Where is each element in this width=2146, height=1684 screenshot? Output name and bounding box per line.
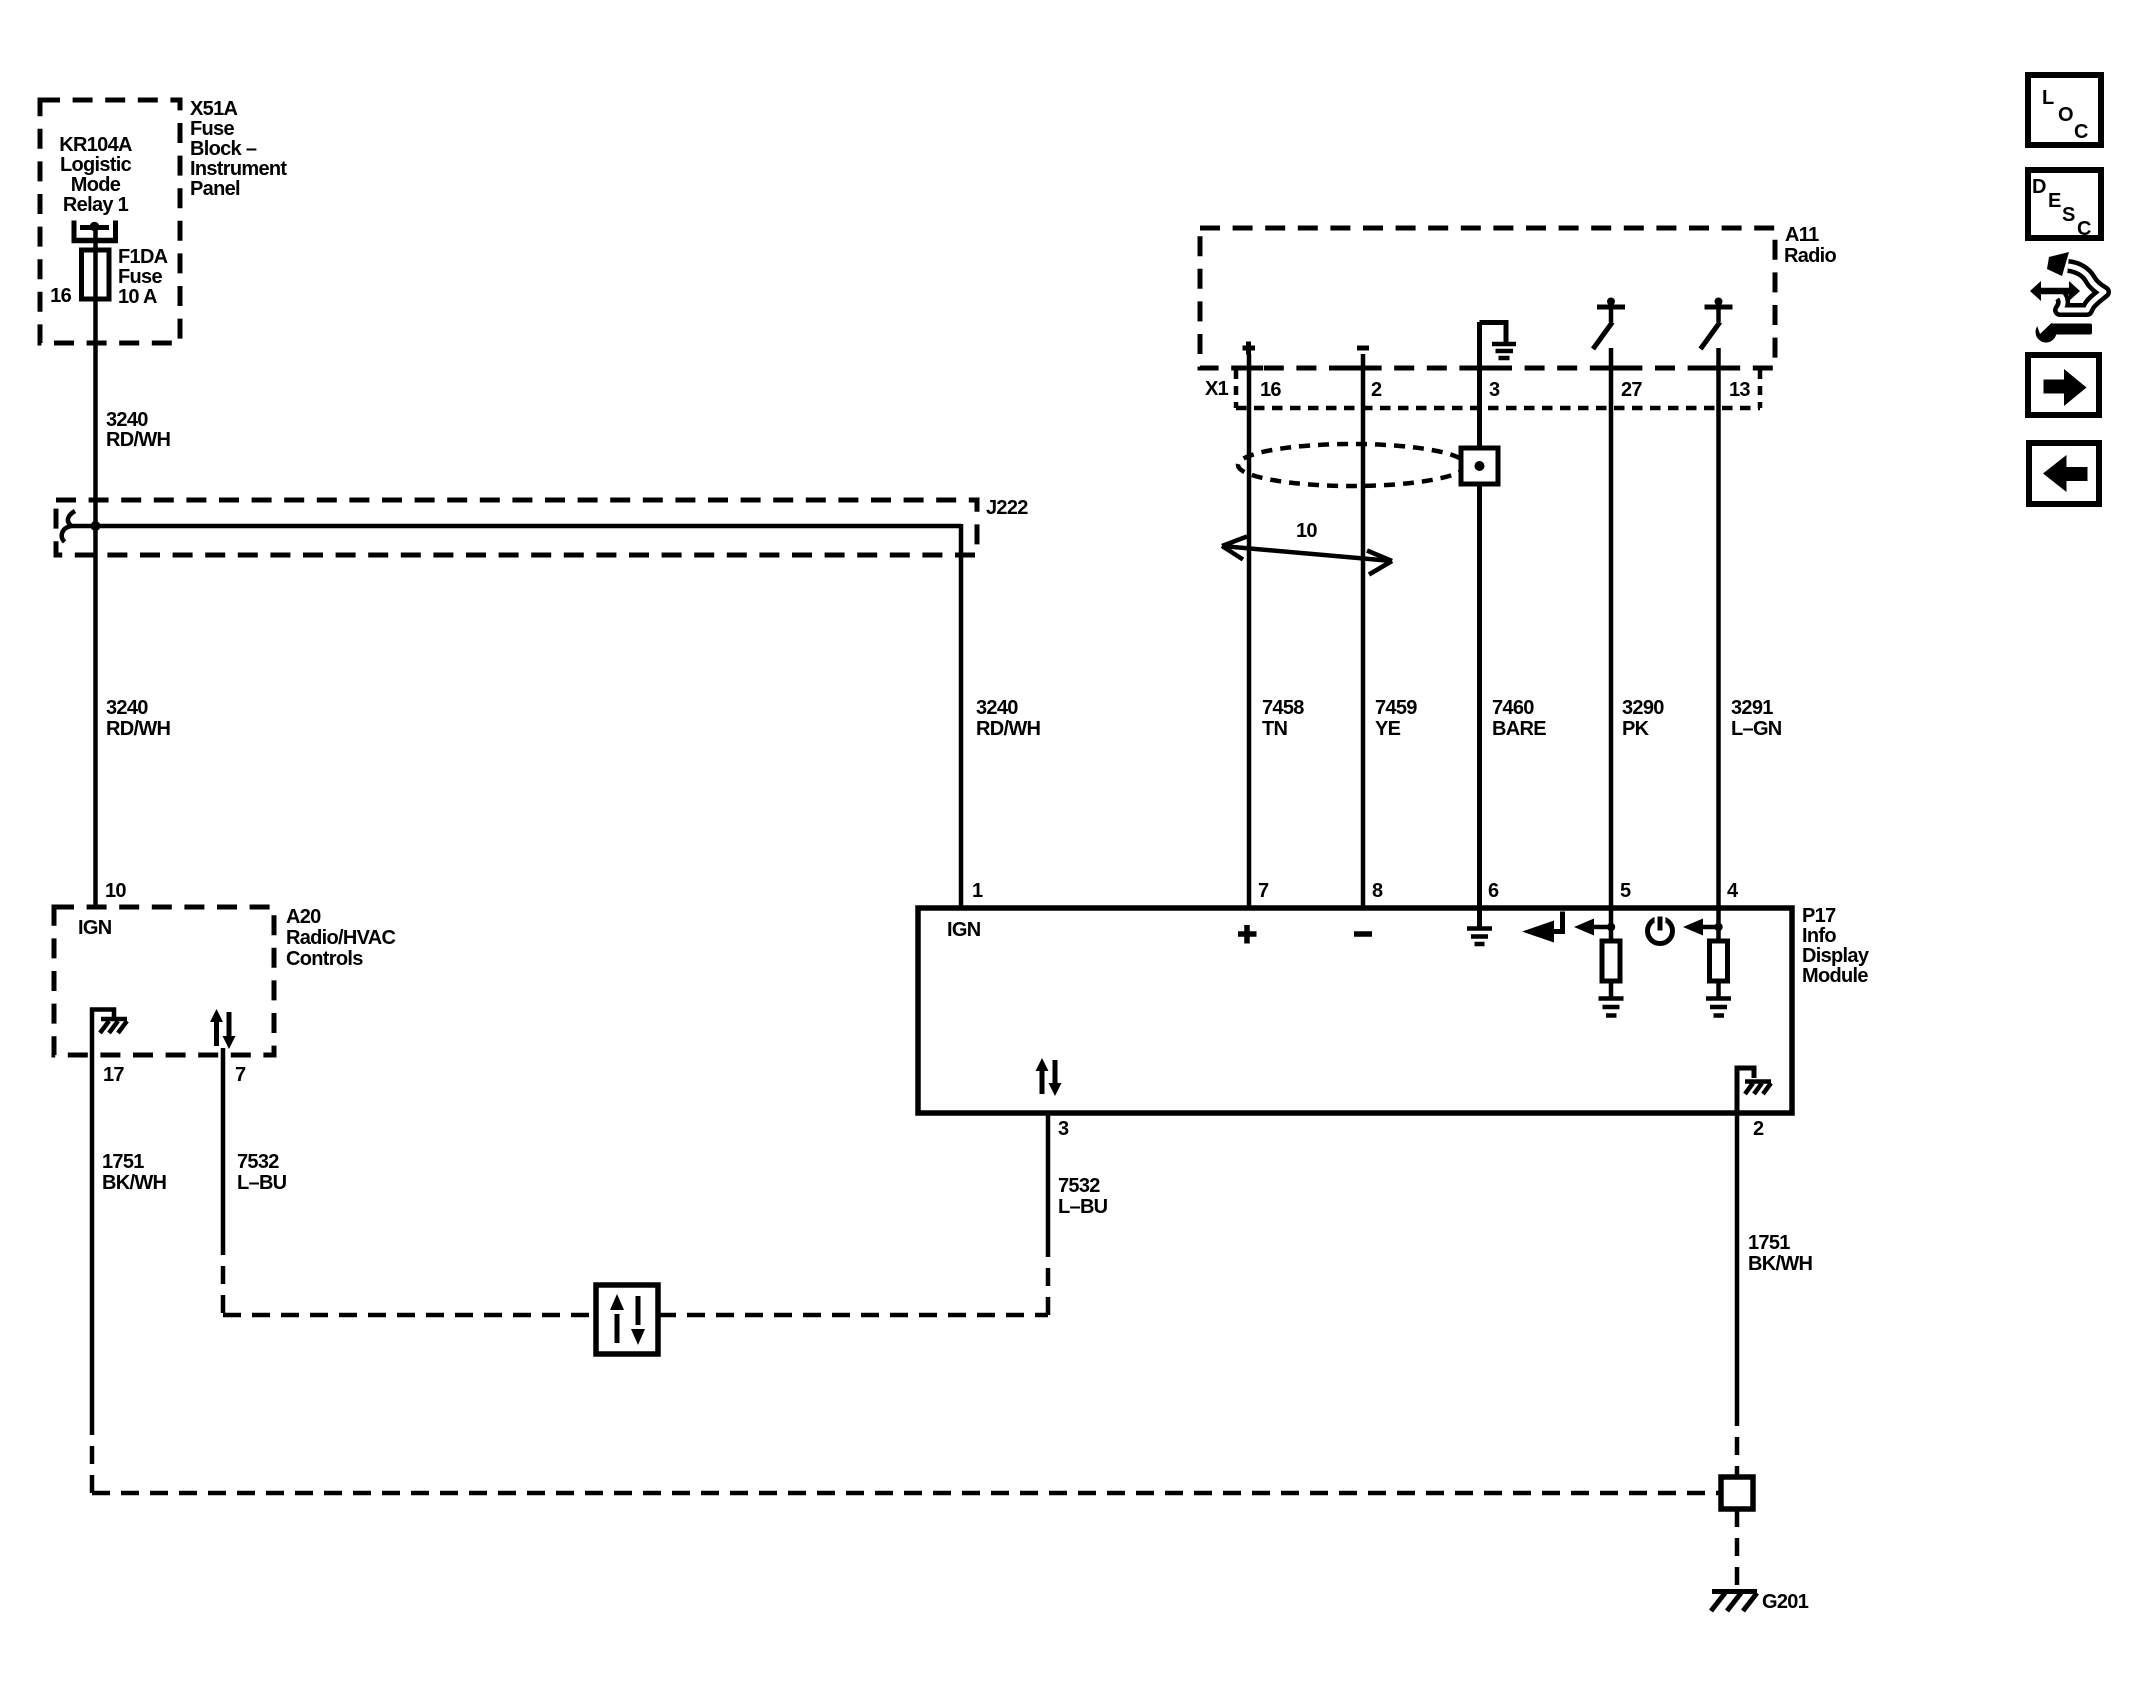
svg-text:KR104A: KR104A [59, 134, 132, 156]
minus symbol at A11 pin 2 [1357, 346, 1369, 351]
svg-text:16: 16 [50, 285, 71, 307]
ground symbol inside A11 at pin 3 [1480, 323, 1507, 343]
dashed 7532 run to splice box [223, 1313, 596, 1318]
svg-text:3240: 3240 [106, 697, 148, 719]
svg-text:C: C [2077, 218, 2091, 240]
wire 3291 L-GN (A11 pin 13 to P17 pin 4) [1716, 348, 1721, 908]
svg-text:Display: Display [1802, 945, 1870, 967]
svg-text:Controls: Controls [286, 948, 363, 970]
shield termination box on BARE wire [1461, 448, 1498, 484]
dashed ground run 1751 to G201 [92, 1491, 1721, 1496]
svg-text:Mode: Mode [71, 174, 121, 196]
svg-text:BARE: BARE [1492, 718, 1546, 740]
svg-text:J222: J222 [986, 497, 1028, 519]
wire 7532 L-BU from A20 pin 7 [221, 1048, 226, 1237]
enter symbol (arrow with hook) [1522, 921, 1554, 943]
svg-text:Logistic: Logistic [60, 154, 132, 176]
svg-text:Info: Info [1802, 925, 1836, 947]
svg-text:E: E [2048, 190, 2061, 212]
svg-text:C: C [2074, 121, 2088, 143]
input arrow at P17 pin 4 [1697, 925, 1718, 930]
svg-text:RD/WH: RD/WH [976, 718, 1041, 740]
radio/HVAC controls A20 dashed box [54, 907, 274, 1055]
info display module P17 box [918, 908, 1792, 1113]
connector band ticks on A11 bottom edge [1235, 366, 1733, 371]
svg-text:X51A: X51A [190, 98, 237, 120]
svg-text:10 A: 10 A [118, 286, 157, 308]
svg-text:7: 7 [1258, 880, 1269, 902]
svg-text:1751: 1751 [102, 1151, 144, 1173]
icon forward arrow box [2028, 355, 2099, 415]
relay KR104A contact symbol [74, 221, 116, 243]
resistor at pin 4 [1716, 908, 1721, 941]
svg-text:RD/WH: RD/WH [106, 429, 171, 451]
ground under pin-5 resistor [1599, 999, 1624, 1016]
wire 3290 PK (A11 pin 27 to P17 pin 5) [1609, 348, 1614, 908]
svg-text:3: 3 [1058, 1118, 1069, 1140]
icon DESC box [2028, 170, 2101, 238]
svg-text:10: 10 [105, 880, 126, 902]
svg-text:IGN: IGN [947, 919, 981, 941]
svg-text:O: O [2058, 104, 2073, 126]
wire 7458 TN (A11 pin 16 to P17 pin 7) [1247, 354, 1252, 908]
svg-text:Instrument: Instrument [190, 158, 287, 180]
minus symbol at P17 pin 8 [1354, 931, 1372, 937]
svg-text:A20: A20 [286, 906, 321, 928]
svg-text:3: 3 [1489, 379, 1500, 401]
svg-text:8: 8 [1372, 880, 1383, 902]
svg-text:3290: 3290 [1622, 697, 1664, 719]
svg-text:A11: A11 [1785, 224, 1819, 246]
svg-text:1751: 1751 [1748, 1232, 1790, 1254]
wire 7532 L-BU up to P17 pin 3 [1046, 1113, 1051, 1244]
connector X1 band right edge [1758, 370, 1763, 408]
svg-text:3240: 3240 [976, 697, 1018, 719]
ground symbol at P17 pin 6 [1477, 908, 1482, 927]
relay node dot [90, 222, 100, 232]
svg-text:7532: 7532 [1058, 1175, 1100, 1197]
svg-text:7458: 7458 [1262, 697, 1304, 719]
svg-text:27: 27 [1621, 379, 1642, 401]
svg-text:L–BU: L–BU [237, 1172, 287, 1194]
wire 1751 BK/WH from P17 pin 2 [1735, 1113, 1740, 1408]
plus symbol at P17 pin 7 [1238, 925, 1257, 944]
svg-text:Block –: Block – [190, 138, 257, 160]
svg-text:BK/WH: BK/WH [102, 1172, 167, 1194]
shield drain ellipse (dashed) [1238, 444, 1466, 486]
wire from relay through fuse to A20 pin 10 [93, 226, 98, 908]
svg-text:IGN: IGN [78, 917, 112, 939]
wire J222 horizontal 3240 RD/WH [72, 524, 961, 529]
resistor at pin 5 [1609, 908, 1614, 941]
svg-text:2: 2 [1753, 1118, 1764, 1140]
junction dot on J222 bus [91, 521, 101, 531]
svg-text:F1DA: F1DA [118, 246, 168, 268]
conductor count arrow (10) [1222, 546, 1392, 561]
svg-text:10: 10 [1296, 520, 1317, 542]
fuse F1DA 10A [82, 250, 110, 299]
serial data symbol at P17 pin 3 [1040, 1067, 1045, 1094]
svg-text:Fuse: Fuse [190, 118, 234, 140]
svg-text:4: 4 [1727, 880, 1739, 902]
svg-text:G201: G201 [1762, 1591, 1809, 1613]
svg-text:PK: PK [1622, 718, 1650, 740]
wire 1751 BK/WH from A20 pin 17 [90, 1055, 95, 1417]
icon wrench [2036, 322, 2057, 343]
icon harness double arrow [2030, 281, 2080, 301]
J222 bus hook [62, 511, 75, 542]
svg-text:Relay 1: Relay 1 [63, 194, 129, 216]
svg-text:BK/WH: BK/WH [1748, 1253, 1813, 1275]
ground junction box G201 [1721, 1477, 1753, 1509]
splice pack J222 dashed box [56, 500, 977, 555]
svg-text:1: 1 [972, 880, 983, 902]
svg-text:7460: 7460 [1492, 697, 1534, 719]
power symbol [1648, 919, 1673, 944]
connector X1 band left edge [1234, 370, 1239, 408]
svg-text:5: 5 [1620, 880, 1631, 902]
connector X1 band bottom dashed line [1236, 406, 1760, 411]
svg-text:16: 16 [1260, 379, 1281, 401]
svg-text:3240: 3240 [106, 409, 148, 431]
svg-text:S: S [2062, 204, 2075, 226]
svg-text:13: 13 [1729, 379, 1750, 401]
icon LOC box [2028, 75, 2101, 145]
svg-text:Panel: Panel [190, 178, 240, 200]
serial data link box [596, 1285, 658, 1354]
svg-text:Fuse: Fuse [118, 266, 162, 288]
wire 3240 RD/WH down to P17 pin 1 [959, 524, 964, 908]
svg-text:7532: 7532 [237, 1151, 279, 1173]
svg-text:X1: X1 [1205, 378, 1229, 400]
dashed 7532 run from splice box to P17 pin 3 [658, 1313, 1048, 1318]
svg-text:L–BU: L–BU [1058, 1196, 1108, 1218]
switch symbol at A11 pin 27 [1597, 305, 1625, 310]
ground under pin-4 resistor [1706, 999, 1731, 1016]
svg-text:P17: P17 [1802, 905, 1836, 927]
wire 7459 YE (A11 pin 2 to P17 pin 8) [1361, 354, 1366, 908]
svg-text:Radio/HVAC: Radio/HVAC [286, 927, 396, 949]
svg-text:L–GN: L–GN [1731, 718, 1782, 740]
svg-text:7459: 7459 [1375, 697, 1417, 719]
fuse block X51A dashed box [40, 100, 180, 343]
svg-text:7: 7 [235, 1064, 246, 1086]
svg-text:RD/WH: RD/WH [106, 718, 171, 740]
svg-text:D: D [2032, 176, 2046, 198]
icon back arrow box [2029, 443, 2099, 504]
chassis ground inside P17 [1737, 1068, 1754, 1113]
svg-text:6: 6 [1488, 880, 1499, 902]
svg-text:2: 2 [1371, 379, 1382, 401]
switch symbol at A11 pin 13 [1705, 305, 1733, 310]
svg-text:YE: YE [1375, 718, 1401, 740]
svg-text:L: L [2042, 87, 2054, 109]
serial data symbol at A20 pin 7 [214, 1019, 219, 1046]
chassis ground G201 [1712, 1589, 1757, 1594]
svg-text:Radio: Radio [1784, 245, 1837, 267]
plus symbol at A11 pin 16 [1243, 342, 1256, 355]
radio A11 dashed box [1200, 228, 1775, 368]
icon connector outline [2060, 266, 2104, 310]
svg-text:Module: Module [1802, 965, 1868, 987]
svg-text:TN: TN [1262, 718, 1288, 740]
chassis ground inside A20 [92, 1010, 114, 1056]
input arrow at P17 pin 5 [1588, 925, 1610, 930]
svg-text:3291: 3291 [1731, 697, 1773, 719]
svg-text:17: 17 [103, 1064, 124, 1086]
wire 7460 BARE (A11 pin 3 to P17 pin 6) [1477, 322, 1482, 908]
